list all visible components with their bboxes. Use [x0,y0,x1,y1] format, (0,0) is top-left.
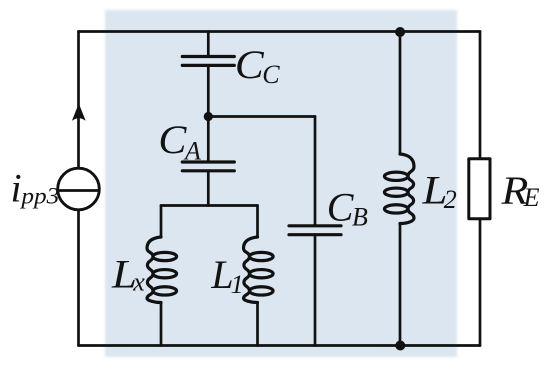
wire left vertical lower [77,210,80,346]
current source ipp3 bar [58,189,99,192]
label CC [235,44,280,90]
svg-text:i: i [11,166,22,211]
svg-text:1: 1 [231,270,244,299]
inductor L2 coil [384,154,414,224]
wire Lx lower lead [160,303,163,346]
label Lx [111,253,145,297]
label L2 [421,169,456,215]
label ipp3 [11,166,60,211]
wire CC top lead [207,32,210,57]
label RE [500,170,539,214]
node dot top L2 [395,27,405,37]
wire bracket top of Lx L1 [161,204,258,207]
wire L2 lower lead [399,224,402,346]
wire CB lower lead [314,235,317,346]
inductor Lx coil [147,237,177,303]
shaded background region [105,10,457,357]
svg-text:A: A [183,136,201,165]
capacitor CB top plate [289,224,341,227]
wire Lx upper lead [160,206,163,238]
svg-text:x: x [132,268,145,297]
wire CB upper lead [314,117,317,226]
wire bottom horizontal [79,344,481,347]
label CA [158,117,201,165]
capacitor CB bottom plate [289,233,341,236]
current source ipp3 arrow [72,104,86,121]
capacitor CA top plate [182,160,234,163]
current source ipp3 circle [58,168,100,210]
wire top horizontal [79,30,481,33]
capacitor CC top plate [182,55,234,58]
svg-text:B: B [352,203,368,232]
wire right vertical lower [479,219,482,346]
svg-text:2: 2 [444,185,457,214]
wire CC bottom lead [207,65,210,116]
wire L1 lower lead [256,303,259,346]
wire L1 upper lead [256,206,259,238]
svg-text:C: C [262,60,280,89]
svg-text:pp3: pp3 [19,184,59,210]
node dot bottom L2 [395,341,405,351]
capacitor CA bottom plate [182,169,234,172]
label CB [327,185,368,232]
svg-text:C: C [158,117,187,162]
wire node A to CB branch [208,115,315,118]
wire L2 upper lead [399,32,402,155]
label L1 [210,252,243,299]
wire node A to CA [207,117,210,163]
wire right vertical upper [479,32,482,159]
inductor L1 coil [244,237,274,303]
resistor RE box [469,159,490,219]
svg-text:C: C [327,185,355,230]
svg-text:E: E [523,183,540,212]
wire CA bottom lead [207,171,210,206]
node dot A [204,112,213,121]
wire left vertical upper [77,32,80,169]
capacitor CC bottom plate [182,64,234,67]
svg-text:C: C [235,44,265,88]
